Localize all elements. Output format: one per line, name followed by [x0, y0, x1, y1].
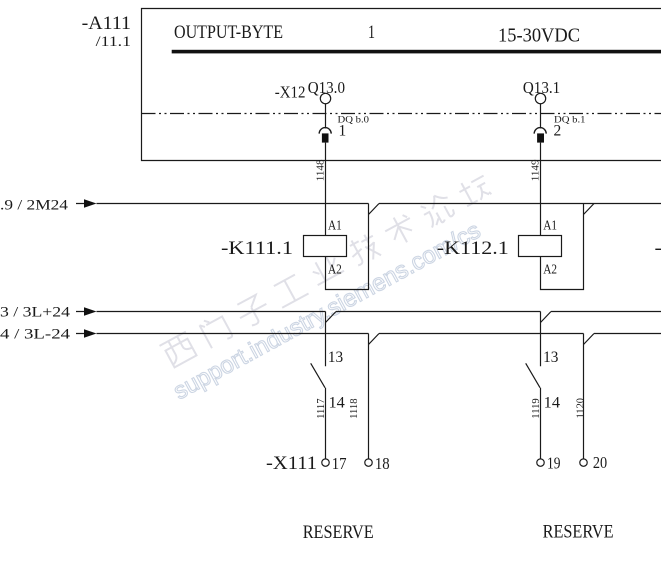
svg-text:1148: 1148	[314, 159, 326, 181]
svg-text:Q13.1: Q13.1	[523, 78, 560, 97]
svg-text:3 / 3L+24: 3 / 3L+24	[0, 305, 71, 321]
svg-text:4 / 3L-24: 4 / 3L-24	[0, 327, 71, 343]
svg-text:17: 17	[332, 454, 347, 473]
svg-text:1: 1	[368, 22, 375, 43]
svg-text:A2: A2	[543, 262, 557, 277]
svg-text:13: 13	[328, 349, 343, 366]
svg-text:/11.1: /11.1	[96, 34, 131, 50]
svg-text:1119: 1119	[530, 398, 542, 419]
svg-text:1117: 1117	[315, 398, 327, 419]
svg-text:-K111.1: -K111.1	[221, 238, 293, 259]
svg-text:15-30VDC: 15-30VDC	[498, 26, 580, 47]
svg-text:2: 2	[554, 123, 562, 140]
svg-text:-K112.1: -K112.1	[437, 238, 509, 259]
svg-text:20: 20	[593, 453, 607, 472]
svg-text:A2: A2	[328, 262, 342, 277]
svg-text:A1: A1	[328, 218, 342, 233]
svg-text:1118: 1118	[348, 398, 360, 419]
svg-text:13: 13	[543, 349, 558, 366]
svg-text:RESERVE: RESERVE	[303, 522, 374, 543]
svg-text:Q13.0: Q13.0	[308, 78, 345, 97]
svg-text:-A111: -A111	[82, 13, 131, 34]
svg-text:1: 1	[339, 123, 347, 140]
svg-text:.9 / 2M24: .9 / 2M24	[0, 197, 69, 213]
svg-text:A1: A1	[543, 218, 557, 233]
svg-text:1120: 1120	[574, 398, 586, 419]
svg-text:14: 14	[544, 394, 560, 411]
svg-text:RESERVE: RESERVE	[543, 522, 614, 543]
svg-text:-X12: -X12	[275, 82, 306, 101]
svg-text:19: 19	[547, 454, 561, 473]
svg-text:OUTPUT-BYTE: OUTPUT-BYTE	[174, 22, 283, 43]
svg-text:-X111: -X111	[266, 453, 317, 474]
svg-text:18: 18	[375, 454, 390, 473]
svg-text:-K113.1: -K113.1	[655, 238, 661, 259]
svg-text:14: 14	[329, 394, 345, 411]
svg-text:1149: 1149	[530, 159, 542, 181]
